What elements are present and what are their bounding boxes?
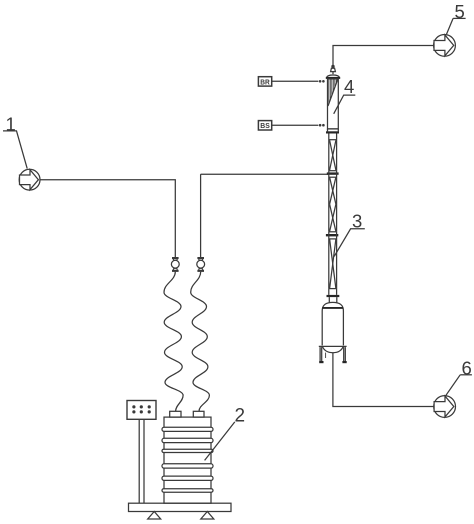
condenser tube hatch (329, 79, 337, 104)
column bottom line (329, 288, 337, 290)
column wall seg B (329, 171, 337, 232)
wire BR to condenser (272, 80, 319, 82)
receiver dished bottom (322, 346, 343, 353)
foot right (201, 512, 214, 520)
control panel pole (139, 419, 144, 503)
flange below condenser (bold) (326, 131, 339, 133)
condenser wall stubs to flange (327, 129, 329, 132)
condenser diagonal (328, 79, 338, 106)
wire fan1 to valve V1 (40, 180, 175, 257)
receiver neck (329, 297, 337, 303)
control panel (127, 401, 156, 420)
condenser bottom line (328, 128, 339, 130)
vessel 2 ring band 3 (162, 449, 213, 452)
svg-text:BR: BR (260, 77, 270, 86)
foot pad right (342, 361, 346, 363)
receiver support ring (319, 345, 347, 347)
foot pad left (319, 361, 323, 363)
svg-text:4: 4 (344, 76, 354, 97)
X cell C (330, 239, 336, 289)
vessel 2 ring band 1 (162, 427, 213, 431)
fan 5 (434, 35, 456, 57)
label 4 (334, 76, 356, 114)
vessel 2 port right (193, 411, 204, 417)
column wall seg C (329, 232, 337, 289)
receiver flask body (322, 302, 343, 345)
wire BS to condenser (272, 124, 319, 126)
vessel 2 ring band 2 (162, 438, 213, 442)
receiver top weld line (bold) (322, 307, 343, 309)
bottom flange (bold) (327, 295, 340, 297)
vessel 2 ring band 6 (162, 489, 213, 493)
X cell A (330, 140, 336, 170)
flange mid1: line, bold bar, line (327, 171, 339, 178)
top ball joint (331, 65, 334, 68)
valve V2 (stopcock) (197, 257, 205, 272)
X cell B2 (330, 204, 336, 231)
fan 1 (circle with block arrow) (19, 169, 40, 190)
wire top: column to fan 5 (333, 46, 434, 66)
column upper collar (329, 134, 337, 171)
coil tube right (191, 272, 210, 412)
receiver leg left (double line) (319, 347, 321, 361)
label 6 (446, 357, 472, 396)
flange mid2: line, bold bar, line (326, 232, 338, 239)
vessel 2 ring band 5 (162, 476, 213, 480)
vessel 2 port left (170, 411, 181, 417)
vessel 2 ring band 4 (162, 464, 213, 468)
column wall to bottom flange (329, 289, 337, 295)
svg-text:BS: BS (260, 121, 270, 130)
label 3 (334, 211, 365, 257)
coil tube left (164, 272, 183, 412)
svg-text:2: 2 (235, 406, 246, 427)
label 1 (3, 114, 27, 169)
label 2 (205, 406, 245, 461)
fan 6 (434, 396, 456, 418)
condenser dome (326, 75, 340, 77)
valve V1 (stopcock) (171, 257, 179, 272)
receiver leg right (double line) (343, 347, 345, 361)
condenser tube sheet (bold) (326, 77, 340, 79)
scale platform (129, 503, 232, 511)
condenser 4 body (328, 79, 339, 129)
vessel 2 body (164, 417, 211, 503)
label 5 (447, 1, 466, 34)
wire column flange to valve V2 (200, 174, 202, 257)
X cell B1 (330, 177, 336, 204)
BS box (258, 121, 271, 131)
top stopper (331, 68, 336, 71)
drain stub tick (325, 353, 327, 358)
foot left (148, 512, 161, 520)
wire receiver to fan 6 (333, 353, 434, 407)
BR box (258, 77, 271, 87)
